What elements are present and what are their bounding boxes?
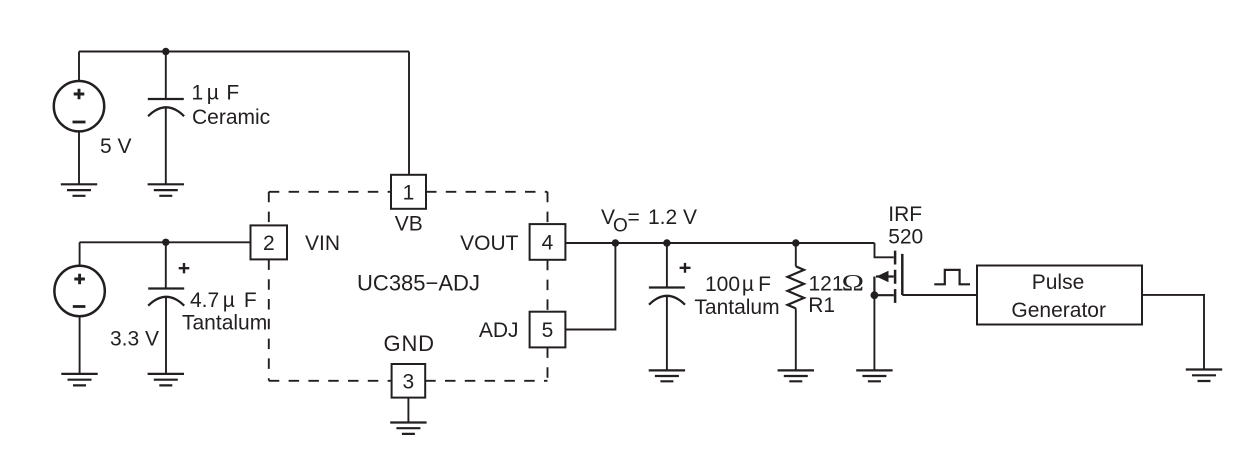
svg-text:VOUT: VOUT [460, 232, 519, 255]
svg-text:3: 3 [403, 370, 415, 393]
junction dot: 3.3V rail / C2 [162, 239, 169, 246]
wire: V1 top stub [78, 52, 80, 82]
pin 3 box (GND) [392, 364, 426, 398]
junction dot: top rail / C1 [162, 48, 169, 55]
svg-text:520: 520 [888, 226, 923, 249]
wire: 3.3V rail to VIN [80, 241, 251, 243]
pulse generator box [977, 266, 1142, 325]
ground (Q1) [856, 370, 892, 381]
svg-text:5 V: 5 V [100, 135, 132, 158]
ground (C1) [148, 184, 184, 196]
pin 1 box (VB) [391, 175, 426, 209]
ground (V2) [61, 374, 97, 386]
transistor Q1 body stub and arrow [874, 271, 893, 296]
junction dot: C3 [663, 239, 670, 246]
transistor Q1 gate line [901, 254, 904, 295]
transistor Q1 channel [894, 251, 897, 303]
wire: Q1 source to ground [873, 295, 875, 370]
svg-text:Tantalum: Tantalum [694, 296, 779, 319]
svg-text:1µ F: 1µ F [192, 82, 240, 105]
svg-text:Tantalum: Tantalum [182, 312, 267, 335]
resistor R1 [788, 243, 805, 370]
junction dot: ADJ / VOUT [612, 239, 619, 246]
svg-text:VO= 1.2 V: VO= 1.2 V [601, 206, 697, 236]
svg-text:4: 4 [542, 232, 554, 255]
svg-text:Ω: Ω [842, 270, 864, 296]
wire: VB pin to top rail [408, 52, 410, 175]
svg-text:5: 5 [542, 319, 554, 342]
svg-text:ADJ: ADJ [479, 319, 519, 342]
wire: V2 top stub [79, 242, 81, 266]
wire: ADJ to output rail [565, 243, 615, 330]
ground (V1) [61, 184, 97, 196]
pin 2 box (VIN) [251, 225, 288, 259]
ground (C2) [148, 374, 184, 386]
ground (C3) [649, 370, 685, 381]
svg-text:1: 1 [403, 181, 415, 204]
capacitor C3 100uF [649, 243, 691, 370]
svg-text:121: 121 [809, 273, 844, 296]
svg-text:Ceramic: Ceramic [192, 106, 270, 129]
wire: VOUT output rail [565, 242, 874, 244]
voltage source V1 5V [54, 81, 104, 131]
svg-text:Generator: Generator [1011, 299, 1106, 322]
capacitor C1 1uF [148, 52, 184, 185]
dashed box UC385-ADJ [269, 192, 548, 381]
svg-text:GND: GND [384, 331, 435, 356]
transistor Q1 IRF520 drain wire [875, 243, 894, 257]
capacitor C2 4.7uF [148, 242, 189, 374]
junction dot: R1 [792, 239, 799, 246]
svg-text:2: 2 [263, 232, 275, 255]
svg-text:4.7µ F: 4.7µ F [190, 289, 257, 312]
ground (pulse generator) [1186, 370, 1222, 382]
pin 5 box (ADJ) [530, 312, 566, 348]
svg-text:Pulse: Pulse [1032, 271, 1085, 294]
transistor Q1 source stub [874, 294, 893, 296]
svg-text:VIN: VIN [305, 232, 340, 255]
svg-text:VB: VB [395, 212, 423, 235]
wire: pulse generator return [1142, 295, 1204, 370]
svg-text:IRF: IRF [888, 203, 922, 226]
wire: gate to pulse generator [902, 294, 977, 296]
voltage source V2 3.3V [54, 266, 104, 316]
svg-text:3.3 V: 3.3 V [110, 328, 159, 351]
wire: V2 to ground [79, 316, 81, 374]
svg-text:100µ F: 100µ F [705, 273, 771, 296]
ground (pin 3) [390, 423, 426, 434]
wire: pin 3 to ground [407, 398, 409, 423]
pin 4 box (VOUT) [530, 224, 566, 260]
pulse waveform symbol [934, 270, 970, 284]
svg-text:UC385−ADJ: UC385−ADJ [357, 271, 480, 296]
wire: V1 to ground [78, 131, 80, 184]
ground (R1) [778, 370, 814, 381]
junction dot: Q1 source/body [871, 291, 879, 299]
svg-text:R1: R1 [808, 294, 835, 317]
wire: 5V top rail [79, 51, 409, 53]
